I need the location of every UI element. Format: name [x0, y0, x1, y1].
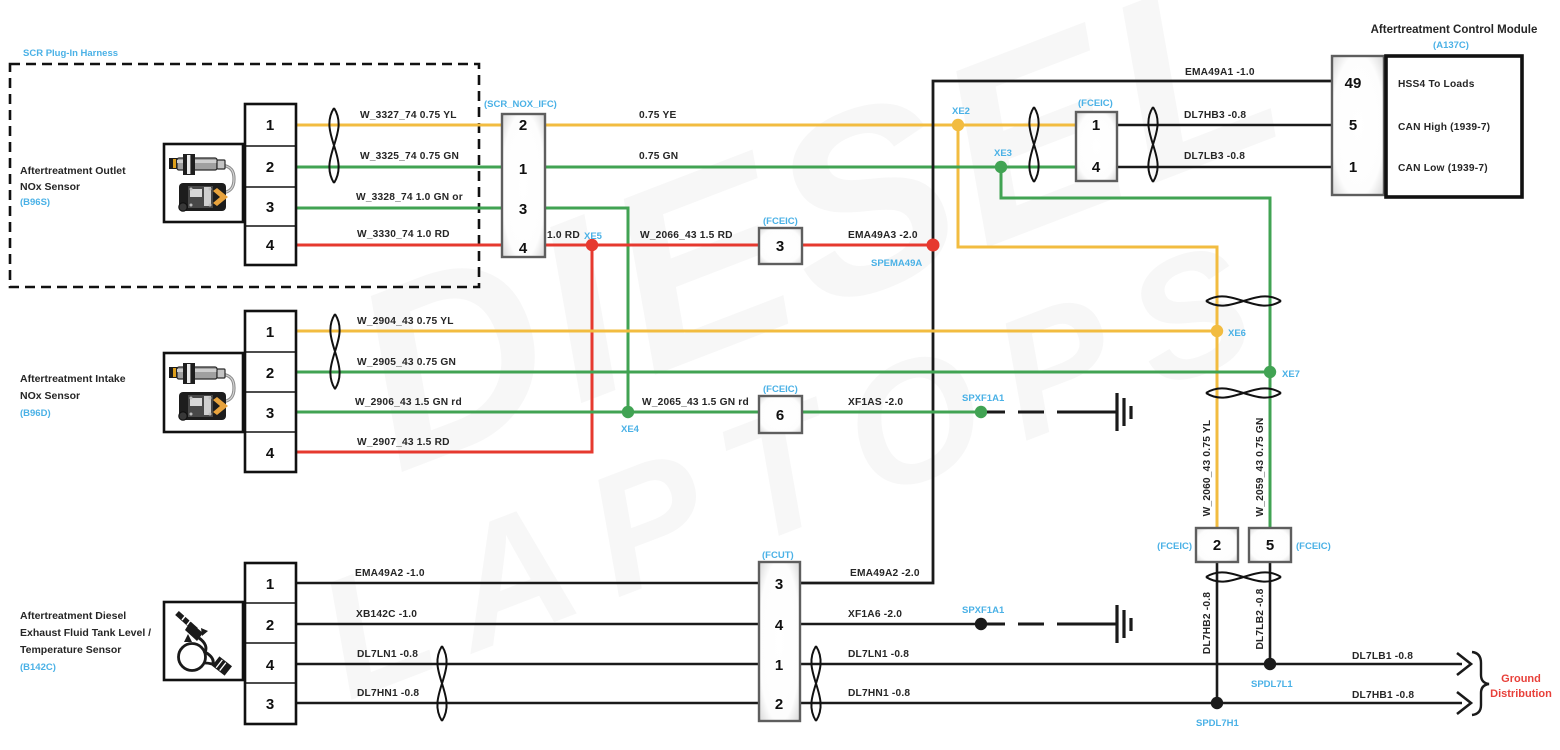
svg-text:4: 4	[266, 445, 275, 462]
svg-text:XF1A6 -2.0: XF1A6 -2.0	[848, 609, 902, 620]
svg-text:XF1AS -2.0: XF1AS -2.0	[848, 397, 903, 408]
wire W_2904_43 yellow intake pin1 to XE6	[296, 330, 1217, 333]
svg-text:DL7HB1 -0.8: DL7HB1 -0.8	[1352, 690, 1414, 701]
svg-text:4: 4	[1092, 159, 1101, 176]
watermark	[294, 0, 1322, 735]
svg-text:Ground: Ground	[1501, 673, 1541, 685]
svg-text:XE4: XE4	[621, 424, 640, 435]
svg-text:DL7HB3 -0.8: DL7HB3 -0.8	[1184, 110, 1246, 121]
wire EMA49A2 black DEF pin1 to FCUT3	[296, 582, 759, 585]
svg-text:3: 3	[775, 576, 783, 593]
twisted pair horizontal mid	[1206, 388, 1281, 397]
svg-text:(FCEIC): (FCEIC)	[1078, 98, 1113, 109]
svg-text:W_2907_43 1.5 RD: W_2907_43 1.5 RD	[357, 437, 450, 448]
arrow DL7HB1	[1457, 692, 1471, 714]
wire DL7HB2 black below FCEIC2	[1216, 562, 1219, 703]
wire XB142C black DEF pin2 to FCUT4	[296, 623, 759, 626]
svg-text:(FCEIC): (FCEIC)	[1296, 541, 1331, 552]
node XE7	[1264, 366, 1276, 378]
svg-text:HSS4 To Loads: HSS4 To Loads	[1398, 79, 1475, 90]
svg-text:(B142C): (B142C)	[20, 662, 56, 673]
wire DL7LN1 black DEF pin4 to FCUT1	[296, 663, 759, 666]
svg-text:DL7LB2 -0.8: DL7LB2 -0.8	[1255, 588, 1266, 649]
svg-text:NOx Sensor: NOx Sensor	[20, 390, 80, 402]
svg-text:2: 2	[266, 365, 274, 382]
svg-text:SPDL7L1: SPDL7L1	[1251, 679, 1293, 690]
svg-text:1: 1	[266, 576, 274, 593]
wire W_3325_74 green outlet pin2	[296, 166, 502, 169]
wire W_3330_74 red outlet pin4	[296, 244, 502, 247]
wire EMA49A3 red FCEIC3 to SPEMA49A	[802, 244, 933, 247]
svg-text:3: 3	[266, 199, 274, 216]
svg-text:(SCR_NOX_IFC): (SCR_NOX_IFC)	[484, 99, 557, 110]
svg-text:W_2066_43 1.5 RD: W_2066_43 1.5 RD	[640, 230, 733, 241]
svg-text:W_3330_74 1.0 RD: W_3330_74 1.0 RD	[357, 229, 450, 240]
svg-text:W_2904_43 0.75 YL: W_2904_43 0.75 YL	[357, 316, 454, 327]
svg-text:W_2906_43 1.5 GN rd: W_2906_43 1.5 GN rd	[355, 397, 462, 408]
wire W_2907_43 red intake pin4	[296, 451, 592, 454]
svg-text:CAN High (1939-7): CAN High (1939-7)	[1398, 122, 1490, 133]
wire XF1A6 black FCUT4 to SPXF1A1	[800, 623, 981, 626]
wire W_3327_74 yellow outlet pin1	[296, 124, 502, 127]
svg-text:W_2059_43 0.75 GN: W_2059_43 0.75 GN	[1255, 417, 1266, 516]
node XE3	[995, 161, 1007, 173]
wire yellow XE2 loop down	[958, 125, 1217, 528]
inline connector FCEIC pin 2	[1157, 528, 1238, 562]
svg-text:4: 4	[266, 657, 275, 674]
wire W_3328_74 green outlet pin3	[296, 207, 502, 210]
svg-text:6: 6	[776, 407, 784, 424]
svg-text:XE6: XE6	[1228, 328, 1246, 339]
inline connector SCR_NOX_IFC	[484, 99, 557, 257]
DEF tank sensor name	[20, 610, 151, 673]
svg-text:DL7HB2 -0.8: DL7HB2 -0.8	[1202, 592, 1213, 654]
svg-text:EMA49A1 -1.0: EMA49A1 -1.0	[1185, 67, 1255, 78]
svg-text:1: 1	[775, 657, 783, 674]
svg-text:(A137C): (A137C)	[1433, 40, 1469, 51]
svg-text:W_3328_74 1.0 GN or: W_3328_74 1.0 GN or	[356, 192, 463, 203]
svg-text:DL7HN1 -0.8: DL7HN1 -0.8	[357, 688, 419, 699]
ground SPXF1A1 upper dashed lead	[987, 411, 1116, 414]
connector B96D 4-pin	[245, 311, 296, 472]
wire green XE3 loop down	[1001, 167, 1270, 528]
wire green SCR pin3 down to XE4	[545, 208, 628, 412]
svg-text:DL7LB3 -0.8: DL7LB3 -0.8	[1184, 151, 1245, 162]
svg-text:DL7LN1 -0.8: DL7LN1 -0.8	[357, 649, 418, 660]
svg-text:4: 4	[519, 240, 528, 257]
inline connector FCEIC pin 6	[759, 384, 802, 433]
svg-text:(B96S): (B96S)	[20, 197, 50, 208]
svg-text:Aftertreatment Control Module: Aftertreatment Control Module	[1371, 24, 1538, 36]
svg-text:Exhaust Fluid Tank Level /: Exhaust Fluid Tank Level /	[20, 627, 151, 639]
wire 1.0 RD red to FCEIC3	[545, 244, 759, 247]
SCR Plug-In Harness dashed boundary	[10, 64, 479, 287]
svg-text:SPXF1A1: SPXF1A1	[962, 393, 1005, 404]
svg-text:DL7HN1 -0.8: DL7HN1 -0.8	[848, 688, 910, 699]
svg-text:CAN Low (1939-7): CAN Low (1939-7)	[1398, 163, 1488, 174]
svg-text:XE7: XE7	[1282, 369, 1300, 380]
ground symbol upper	[1117, 393, 1131, 431]
svg-text:XE3: XE3	[994, 148, 1012, 159]
node SPEMA49A	[927, 239, 940, 252]
svg-text:W_3327_74 0.75 YL: W_3327_74 0.75 YL	[360, 110, 457, 121]
inline connector FCEIC pins 1/4	[1076, 98, 1117, 181]
twisted pair FCEIC left	[1029, 107, 1038, 182]
ground SPXF1A1 lower dashed lead	[987, 623, 1116, 626]
svg-text:2: 2	[775, 696, 783, 713]
svg-text:2: 2	[266, 617, 274, 634]
wire DL7HB3 black	[1117, 124, 1332, 127]
svg-text:XB142C -1.0: XB142C -1.0	[356, 609, 417, 620]
svg-text:SPEMA49A: SPEMA49A	[871, 258, 922, 269]
svg-text:EMA49A2 -2.0: EMA49A2 -2.0	[850, 568, 920, 579]
arrow DL7LB1	[1457, 653, 1471, 675]
inline connector FCUT	[759, 550, 800, 721]
svg-text:1: 1	[1092, 117, 1100, 134]
svg-text:49: 49	[1345, 75, 1362, 92]
svg-text:NOx Sensor: NOx Sensor	[20, 181, 80, 193]
svg-text:2: 2	[266, 159, 274, 176]
twisted pair FCEIC right	[1148, 107, 1157, 182]
twisted pair horizontal upper x1207-1281	[1206, 296, 1281, 305]
connector B96S 4-pin	[245, 104, 296, 265]
wire W_2906_43 green intake pin3 to XE4 and FCEIC6	[296, 411, 759, 414]
svg-text:5: 5	[1266, 537, 1274, 554]
svg-text:(FCEIC): (FCEIC)	[1157, 541, 1192, 552]
outlet NOx sensor icon B96S	[164, 144, 243, 222]
twisted pair DEF rows 4-3	[437, 646, 446, 721]
svg-text:W_2065_43 1.5 GN rd: W_2065_43 1.5 GN rd	[642, 397, 749, 408]
svg-text:Aftertreatment Intake: Aftertreatment Intake	[20, 373, 126, 385]
twisted pair outlet rows 1-2	[329, 108, 338, 183]
node SPDL7H1	[1211, 697, 1223, 709]
svg-text:0.75 YE: 0.75 YE	[639, 110, 676, 121]
node XE6	[1211, 325, 1223, 337]
node XE5	[586, 239, 598, 251]
svg-text:3: 3	[266, 696, 274, 713]
wire DL7LN1/DL7LB1 black to arrow	[800, 663, 1462, 666]
node SPXF1A1 upper	[975, 406, 987, 418]
node XE4	[622, 406, 634, 418]
svg-text:1: 1	[266, 117, 274, 134]
DEF tank level/temp sensor icon B142C	[164, 602, 243, 680]
wire W_2905_43 green intake pin2 to XE7	[296, 371, 1270, 374]
svg-text:(B96D): (B96D)	[20, 408, 51, 419]
svg-text:(FCEIC): (FCEIC)	[763, 384, 798, 395]
svg-text:DL7LB1 -0.8: DL7LB1 -0.8	[1352, 651, 1413, 662]
svg-text:Temperature Sensor: Temperature Sensor	[20, 644, 121, 656]
wire red XE5 down to intake pin4 W_2907	[296, 245, 592, 452]
wire DL7HN1/DL7HB1 black to arrow	[800, 702, 1462, 705]
svg-text:Aftertreatment Diesel: Aftertreatment Diesel	[20, 610, 126, 622]
outlet sensor name	[20, 165, 126, 208]
wire 0.75 GN green to XE3 and FCEIC pin4	[545, 166, 1077, 169]
wire DL7LB3 black	[1117, 166, 1332, 169]
ground distribution brace	[1472, 652, 1489, 715]
svg-text:W_2905_43 0.75 GN: W_2905_43 0.75 GN	[357, 357, 456, 368]
svg-text:0.75 GN: 0.75 GN	[639, 151, 678, 162]
svg-text:W_2060_43 0.75 YL: W_2060_43 0.75 YL	[1202, 420, 1213, 517]
svg-text:4: 4	[266, 237, 275, 254]
ground symbol lower	[1117, 605, 1131, 643]
svg-text:EMA49A3 -2.0: EMA49A3 -2.0	[848, 230, 918, 241]
module A137C Aftertreatment Control Module	[1332, 24, 1537, 197]
svg-text:EMA49A2 -1.0: EMA49A2 -1.0	[355, 568, 425, 579]
svg-text:1: 1	[519, 161, 527, 178]
inline connector FCEIC pin 5	[1249, 528, 1331, 562]
svg-text:1: 1	[1349, 159, 1357, 176]
twisted pair intake rows 1-2	[330, 314, 339, 389]
node SPXF1A1 lower	[975, 618, 987, 630]
svg-text:Distribution: Distribution	[1490, 688, 1552, 700]
svg-text:(FCUT): (FCUT)	[762, 550, 794, 561]
svg-text:SPXF1A1: SPXF1A1	[962, 605, 1005, 616]
svg-text:2: 2	[1213, 537, 1221, 554]
connector B142C 4-pin	[245, 563, 296, 724]
svg-text:W_3325_74 0.75 GN: W_3325_74 0.75 GN	[360, 151, 459, 162]
svg-text:DL7LN1 -0.8: DL7LN1 -0.8	[848, 649, 909, 660]
svg-text:1: 1	[266, 324, 274, 341]
wire EMA49A1 black trunk	[800, 81, 1332, 583]
svg-text:3: 3	[776, 238, 784, 255]
svg-text:1.0 RD: 1.0 RD	[547, 230, 580, 241]
wire XF1AS green FCEIC6 to SPXF1A1	[802, 411, 981, 414]
wire 0.75 YE yellow to XE2 and FCEIC pin1	[545, 124, 1077, 127]
svg-text:2: 2	[519, 117, 527, 134]
wire DL7LB2 black below FCEIC5	[1269, 562, 1272, 664]
svg-text:XE2: XE2	[952, 106, 970, 117]
node SPDL7L1	[1264, 658, 1276, 670]
svg-text:(FCEIC): (FCEIC)	[763, 216, 798, 227]
svg-text:Aftertreatment Outlet: Aftertreatment Outlet	[20, 165, 126, 177]
node XE2	[952, 119, 964, 131]
intake NOx sensor icon B96D	[164, 353, 243, 432]
svg-text:4: 4	[775, 617, 784, 634]
svg-text:3: 3	[266, 405, 274, 422]
inline connector FCEIC pin 3	[759, 216, 802, 264]
twisted pair FCUT right rows 1-2	[811, 646, 820, 721]
twisted pair horizontal lower	[1206, 572, 1281, 581]
intake sensor name	[20, 373, 126, 419]
svg-text:SCR Plug-In Harness: SCR Plug-In Harness	[23, 48, 118, 59]
svg-text:XE5: XE5	[584, 231, 603, 242]
svg-text:3: 3	[519, 201, 527, 218]
wire DL7HN1 black DEF pin3 to FCUT2	[296, 702, 759, 705]
svg-text:SPDL7H1: SPDL7H1	[1196, 718, 1239, 729]
svg-text:5: 5	[1349, 117, 1357, 134]
